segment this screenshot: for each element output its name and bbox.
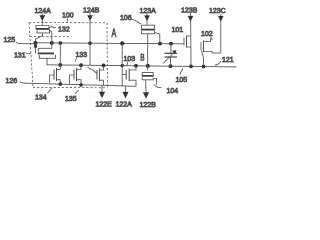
svg-text:131: 131 [14,53,26,60]
svg-text:104: 104 [167,88,179,95]
source bus wire [26,83,136,86]
svg-text:123C: 123C [209,8,226,15]
node B label [140,52,144,63]
node B vertical wire [147,34,149,71]
terminal 123B [181,8,198,67]
wire 124B down to rail 105 [89,43,91,65]
svg-text:123A: 123A [140,8,157,15]
input 125 [4,37,34,44]
svg-text:A: A [112,27,117,40]
capacitor 103 [163,44,177,67]
svg-text:101: 101 [172,27,184,34]
transistor 106 [141,21,160,44]
svg-text:B: B [140,52,144,63]
terminal 122B [140,87,157,109]
node A horizontal rail [36,43,184,44]
terminal 122E [96,85,113,108]
transistor 104 [142,72,157,88]
terminal 124A [35,8,52,26]
svg-text:134: 134 [35,95,47,102]
svg-text:122E: 122E [96,102,113,109]
svg-text:133: 133 [76,52,88,59]
transistor 131 [34,43,56,65]
label 135 with leader [65,90,79,103]
svg-text:122B: 122B [140,102,157,109]
transistor 135 [70,65,82,85]
junction dots on rail 105 [58,63,205,68]
input 126 [6,78,27,85]
terminal 122A [116,86,133,109]
terminal 123A [140,8,157,21]
transistor above 122A [122,66,136,87]
terminal 123C [209,8,226,53]
label 106 with leader [120,15,141,24]
wire node A to transistor 134 drain [59,43,61,69]
node A label [112,27,117,40]
wire node A down to gate region [121,43,123,85]
junction dot T135 source on bus [79,83,83,87]
label 103 with leader [124,56,136,65]
svg-text:125: 125 [4,37,16,44]
svg-text:103: 103 [124,56,136,63]
svg-text:126: 126 [6,78,18,85]
junction dots on rail A [34,41,173,46]
dashed box 100 [29,23,108,88]
inner dashed partition line [30,36,70,38]
line 121 with label [212,53,234,65]
svg-text:132: 132 [58,27,70,34]
svg-text:123B: 123B [181,8,198,15]
transistor 132 [36,26,52,44]
transistor above 122E [88,65,104,85]
label 100 with leader [62,13,74,23]
label 133 with leader [75,52,87,62]
junction dot T134 source on bus [59,82,63,86]
svg-text:124B: 124B [83,8,100,15]
svg-text:105: 105 [176,77,188,84]
svg-text:124A: 124A [35,8,52,15]
label 104 with leader [154,85,178,96]
svg-text:106: 106 [120,15,132,22]
svg-text:122A: 122A [116,102,133,109]
label 131 with leader [14,53,31,60]
transistor 134 [50,68,61,84]
transistor 102 [201,39,212,67]
terminal 124B [83,8,100,44]
middle rail 105 [47,65,237,67]
label 132 with leader [50,27,70,34]
label 105 with leader [176,68,188,84]
svg-text:135: 135 [65,96,77,103]
svg-text:100: 100 [62,13,74,20]
svg-text:121: 121 [222,57,234,64]
transistor 101 [184,36,191,48]
label 134 with leader [35,88,52,102]
